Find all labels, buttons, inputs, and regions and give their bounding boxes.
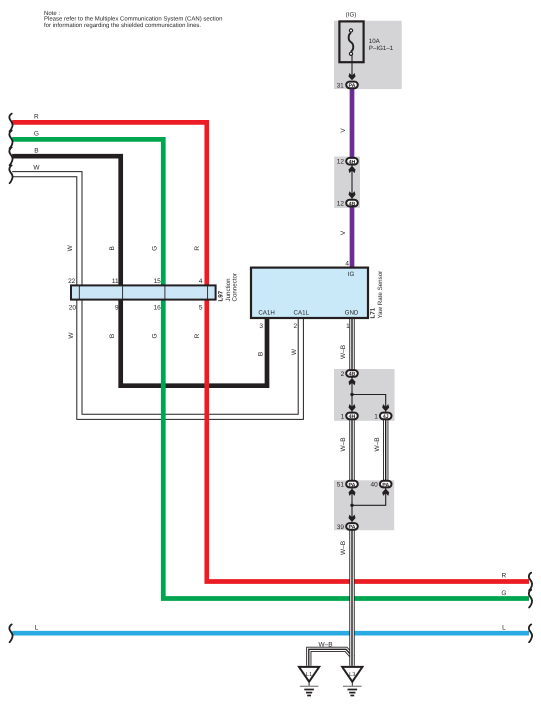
wire L (blue, left to right) [12, 631, 529, 636]
svg-text:Please refer to the Multiplex: Please refer to the Multiplex Communicat… [44, 16, 222, 23]
svg-text:PA: PA [349, 482, 356, 488]
svg-text:G: G [34, 131, 39, 138]
svg-text:PA: PA [382, 482, 389, 488]
svg-text:L: L [502, 624, 506, 631]
svg-text:4: 4 [199, 278, 203, 285]
wire G (left entry to right exit) [12, 139, 529, 598]
svg-text:16: 16 [154, 305, 162, 312]
svg-text:1: 1 [374, 413, 378, 420]
svg-text:31: 31 [337, 82, 345, 89]
svg-text:Connector: Connector [232, 273, 239, 302]
svg-text:G: G [151, 333, 158, 338]
wire R (left entry to right exit) [12, 122, 529, 581]
svg-text:PA: PA [349, 83, 356, 89]
svg-text:R: R [502, 573, 507, 580]
svg-text:4B: 4B [349, 201, 356, 207]
svg-text:39: 39 [337, 524, 345, 531]
svg-text:P–IG1–1: P–IG1–1 [369, 45, 394, 52]
svg-text:51: 51 [337, 482, 345, 489]
svg-text:L71: L71 [370, 307, 377, 318]
gray box connector group 4B/4H/4J [334, 369, 395, 421]
gray box connector group PA [334, 480, 394, 530]
connector oval 4H pin12 [346, 158, 358, 165]
note text [44, 10, 222, 29]
svg-text:4J: 4J [383, 414, 389, 420]
svg-text:4H: 4H [349, 414, 356, 420]
svg-text:1: 1 [346, 323, 350, 330]
label L71 Yaw Rate Sensor [370, 271, 385, 319]
svg-text:4B: 4B [349, 372, 356, 378]
svg-text:9: 9 [115, 305, 119, 312]
svg-text:GND: GND [345, 309, 359, 316]
svg-text:R: R [194, 333, 201, 338]
svg-text:CA1L: CA1L [294, 309, 310, 316]
connector oval 4H pin1 [346, 413, 358, 420]
arrow into PA31 [349, 73, 356, 80]
svg-text:11: 11 [112, 278, 119, 285]
gray box fuse block PA [334, 21, 402, 89]
svg-text:2: 2 [341, 371, 345, 378]
svg-text:R: R [194, 246, 201, 251]
svg-text:L: L [35, 624, 39, 631]
wire W-B GND sensor to 4B [349, 318, 354, 370]
svg-text:Yaw Rate Sensor: Yaw Rate Sensor [377, 271, 384, 319]
connector oval PA pin39 [346, 523, 358, 530]
connector oval PA pin40 [380, 481, 392, 488]
svg-text:2: 2 [293, 323, 297, 330]
svg-text:B: B [109, 246, 116, 250]
connector group 4B/4H/4J internals [349, 377, 390, 412]
wire W-B 4H to PA51 [349, 420, 354, 482]
continuation squiggles left [9, 114, 12, 643]
connector oval 4B pin12 [346, 200, 358, 207]
connector oval 4B pin2 [346, 370, 358, 377]
wire B (left entry to CA1H) [12, 156, 267, 386]
svg-text:W–B: W–B [340, 345, 347, 359]
svg-text:W–B: W–B [340, 437, 347, 451]
continuation squiggles right [529, 573, 532, 643]
svg-text:W: W [33, 164, 40, 171]
svg-text:W: W [67, 244, 74, 251]
svg-text:R: R [34, 113, 39, 120]
fuse 10A P-IG1-1 [339, 21, 363, 79]
connector oval PA pin31 [346, 82, 358, 89]
svg-text:PA: PA [349, 525, 356, 531]
svg-text:for information regarding the: for information regarding the shielded c… [44, 22, 201, 29]
rotated wire color labels [67, 128, 381, 555]
svg-text:5: 5 [199, 305, 203, 312]
svg-text:IG: IG [348, 271, 355, 278]
connector group PA internals [349, 488, 390, 522]
svg-text:20: 20 [69, 305, 77, 312]
svg-text:W–B: W–B [340, 541, 347, 555]
yaw rate sensor box L71 [251, 268, 368, 318]
svg-text:L3: L3 [349, 672, 355, 678]
ground L3 [342, 667, 362, 696]
svg-text:L1: L1 [306, 672, 312, 678]
sensor pin numbers [259, 261, 350, 330]
wire W-B branch to ground L1 [309, 649, 353, 666]
svg-text:L97: L97 [218, 290, 225, 301]
svg-text:B: B [257, 352, 264, 356]
svg-text:W: W [291, 348, 298, 355]
ground L1 [299, 667, 319, 696]
connector pair 4H/4B internals [349, 165, 356, 199]
svg-text:W–B: W–B [374, 437, 381, 451]
svg-text:4H: 4H [349, 159, 356, 165]
connector oval 4J pin1 [380, 413, 392, 420]
svg-text:22: 22 [68, 278, 76, 285]
svg-text:3: 3 [259, 323, 263, 330]
label L97 Junction Connector [218, 273, 239, 302]
svg-text:15: 15 [154, 278, 162, 285]
svg-text:W–B: W–B [318, 642, 332, 649]
svg-text:V: V [340, 230, 347, 235]
svg-text:B: B [109, 334, 116, 338]
junction connector J bar [71, 285, 216, 300]
svg-text:B: B [34, 148, 38, 155]
svg-text:(IG): (IG) [346, 11, 357, 18]
svg-text:1: 1 [341, 413, 345, 420]
svg-text:40: 40 [370, 482, 378, 489]
wire V 4B to sensor IG [350, 207, 355, 267]
wire V fuse to 4H [350, 89, 355, 158]
connector oval PA pin51 [346, 481, 358, 488]
svg-text:CA1H: CA1H [258, 309, 275, 316]
svg-text:V: V [340, 128, 347, 133]
svg-text:G: G [501, 590, 506, 597]
wire W shield (left entry to CA1L) [12, 174, 301, 417]
svg-text:4: 4 [345, 261, 349, 268]
junction connector pin labels [68, 278, 203, 312]
wire W-B 4J to PA40 [383, 420, 388, 482]
gray box connector pair 4H/4B [334, 157, 360, 208]
svg-text:12: 12 [337, 159, 345, 166]
wire color labels horizontal entries [33, 113, 506, 631]
svg-text:W: W [68, 332, 75, 339]
svg-text:12: 12 [337, 201, 345, 208]
svg-text:G: G [151, 246, 158, 251]
wire W-B PA39 to ground L3 [349, 530, 354, 666]
